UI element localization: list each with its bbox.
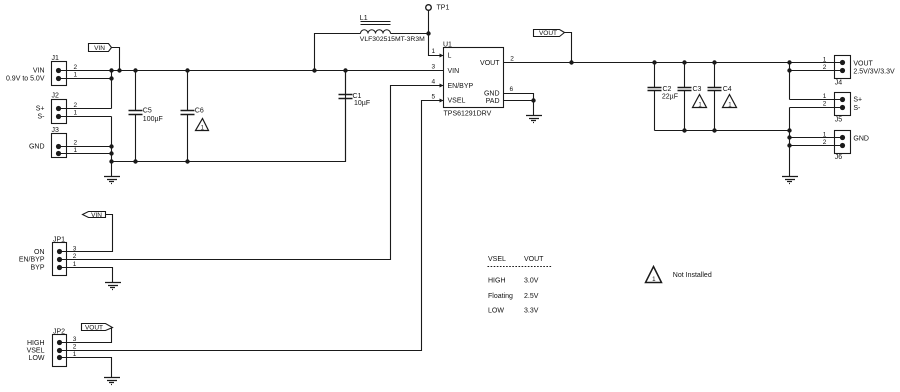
svg-text:Not Installed: Not Installed: [673, 272, 712, 279]
svg-text:HIGH: HIGH: [27, 340, 45, 347]
svg-text:JP1: JP1: [53, 236, 65, 243]
svg-text:VOUT: VOUT: [480, 60, 500, 67]
svg-text:VOUT: VOUT: [524, 256, 544, 263]
svg-text:EN/BYP: EN/BYP: [448, 83, 474, 90]
svg-text:LOW: LOW: [29, 355, 45, 362]
svg-text:1: 1: [73, 147, 77, 154]
svg-text:1: 1: [431, 48, 435, 55]
svg-text:6: 6: [509, 86, 513, 93]
svg-text:3.0V: 3.0V: [524, 278, 539, 285]
svg-text:S-: S-: [853, 105, 861, 112]
svg-text:2: 2: [823, 139, 827, 146]
svg-text:2.5V/3V/3.3V: 2.5V/3V/3.3V: [853, 68, 895, 75]
svg-text:1: 1: [823, 56, 827, 63]
svg-text:C6: C6: [195, 108, 204, 115]
svg-text:S-: S-: [38, 113, 46, 120]
svg-text:VOUT: VOUT: [853, 61, 873, 68]
svg-text:1: 1: [823, 93, 827, 100]
svg-text:S+: S+: [853, 97, 862, 104]
svg-text:1: 1: [73, 261, 77, 268]
svg-text:ON: ON: [34, 249, 45, 256]
svg-text:GND: GND: [853, 135, 869, 142]
svg-text:J1: J1: [52, 55, 60, 62]
svg-text:Floating: Floating: [488, 293, 513, 300]
svg-text:1: 1: [73, 72, 77, 79]
svg-text:J6: J6: [835, 154, 843, 161]
svg-text:C2: C2: [663, 86, 672, 93]
svg-text:3: 3: [73, 245, 77, 252]
svg-text:VLF302515MT-3R3M: VLF302515MT-3R3M: [360, 36, 425, 43]
svg-text:3: 3: [431, 64, 435, 71]
svg-text:VIN: VIN: [448, 68, 460, 75]
svg-text:1: 1: [823, 131, 827, 138]
svg-text:TPS61291DRV: TPS61291DRV: [444, 110, 492, 117]
svg-text:GND: GND: [29, 143, 45, 150]
svg-text:L1: L1: [360, 15, 368, 22]
svg-text:2: 2: [73, 64, 77, 71]
svg-text:BYP: BYP: [30, 264, 44, 271]
svg-text:VIN: VIN: [33, 68, 45, 75]
svg-text:1: 1: [652, 276, 656, 283]
svg-text:4: 4: [431, 79, 435, 86]
svg-text:22µF: 22µF: [662, 93, 678, 100]
svg-text:2: 2: [73, 140, 77, 147]
svg-text:C3: C3: [693, 86, 702, 93]
svg-text:2: 2: [73, 253, 77, 260]
svg-text:1: 1: [73, 110, 77, 117]
svg-text:5: 5: [431, 93, 435, 100]
svg-text:JP2: JP2: [53, 328, 65, 335]
svg-text:100µF: 100µF: [143, 116, 163, 123]
svg-text:J4: J4: [835, 80, 843, 87]
svg-text:10µF: 10µF: [354, 100, 370, 107]
svg-text:GND: GND: [484, 91, 500, 98]
svg-text:1: 1: [73, 351, 77, 358]
svg-text:2: 2: [823, 64, 827, 71]
svg-text:C4: C4: [723, 86, 732, 93]
svg-text:VIN: VIN: [91, 212, 102, 219]
svg-text:PAD: PAD: [486, 98, 500, 105]
svg-text:0.9V to 5.0V: 0.9V to 5.0V: [6, 75, 45, 82]
svg-text:C5: C5: [143, 108, 152, 115]
svg-text:VIN: VIN: [94, 45, 105, 52]
svg-text:2.5V: 2.5V: [524, 293, 539, 300]
svg-text:VSEL: VSEL: [27, 348, 45, 355]
svg-text:EN/BYP: EN/BYP: [19, 257, 45, 264]
svg-text:J5: J5: [835, 116, 843, 123]
svg-text:2: 2: [510, 56, 514, 63]
svg-text:3: 3: [73, 336, 77, 343]
svg-text:VOUT: VOUT: [539, 30, 557, 37]
svg-text:2: 2: [73, 344, 77, 351]
svg-text:L: L: [448, 53, 452, 60]
svg-text:2: 2: [73, 102, 77, 109]
svg-text:S+: S+: [36, 105, 45, 112]
svg-text:VOUT: VOUT: [85, 324, 103, 331]
svg-text:J3: J3: [52, 127, 60, 134]
svg-text:TP1: TP1: [437, 5, 450, 12]
svg-text:VSEL: VSEL: [488, 256, 506, 263]
svg-text:3.3V: 3.3V: [524, 308, 539, 315]
svg-text:LOW: LOW: [488, 308, 504, 315]
svg-text:U1: U1: [443, 41, 452, 48]
svg-text:J2: J2: [52, 93, 60, 100]
svg-text:2: 2: [823, 101, 827, 108]
svg-text:HIGH: HIGH: [488, 278, 506, 285]
svg-text:VSEL: VSEL: [448, 98, 466, 105]
svg-text:C1: C1: [353, 93, 362, 100]
